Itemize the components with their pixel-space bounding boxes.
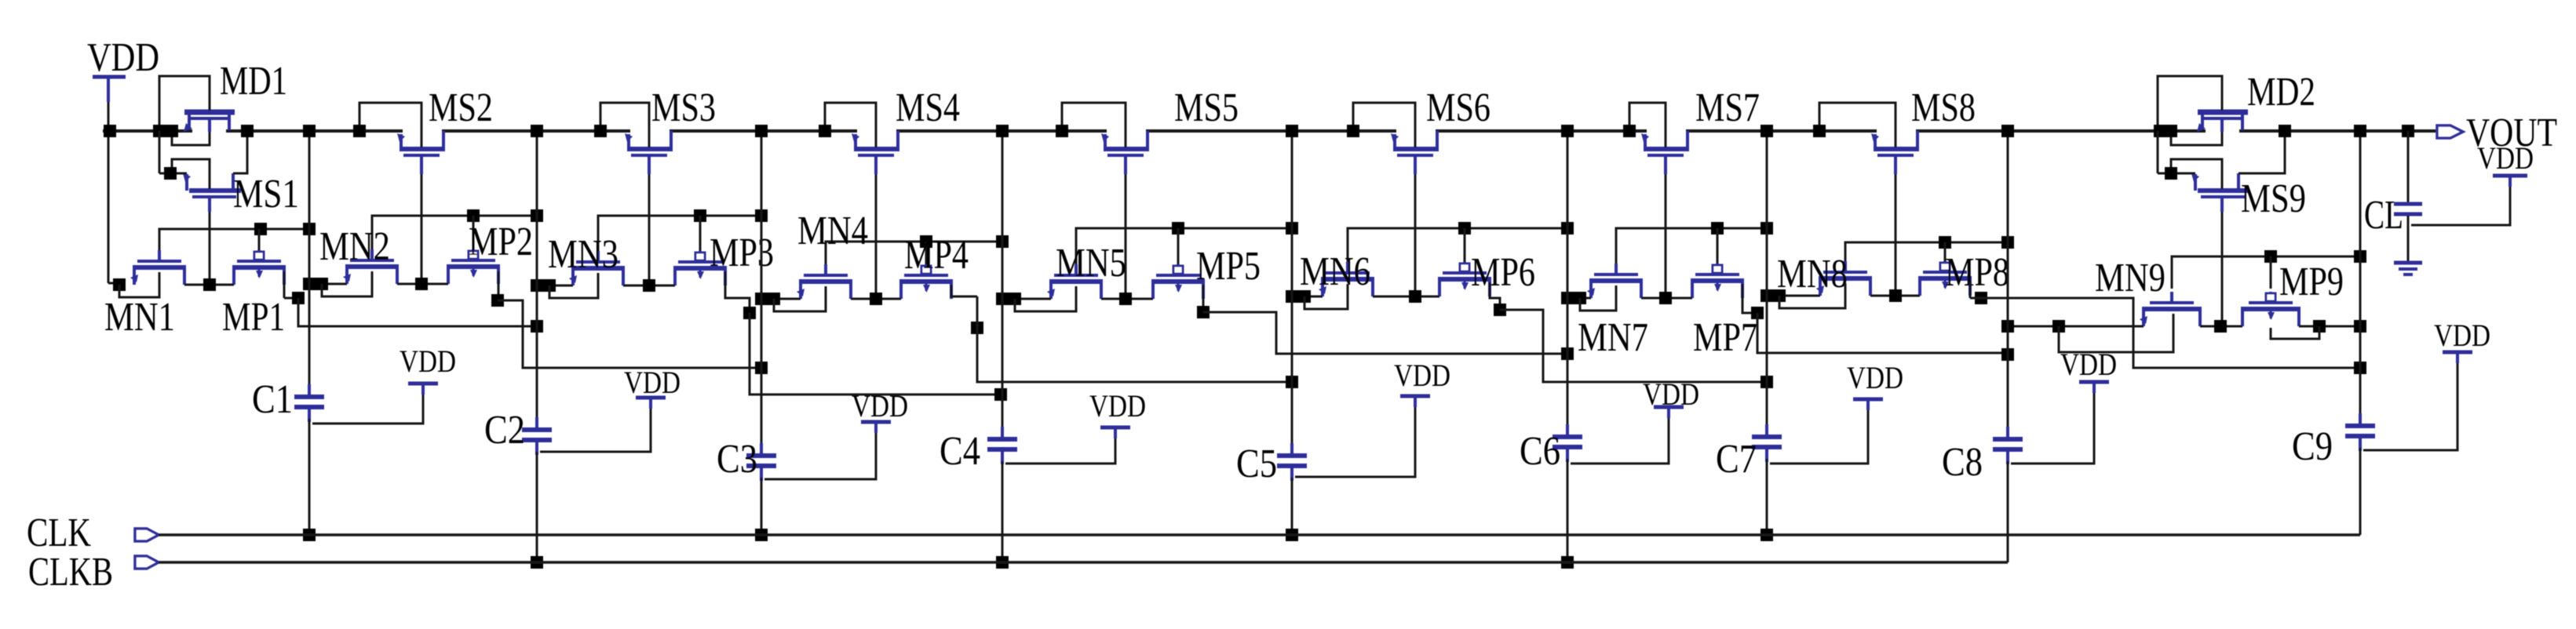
capacitor C9: [2345, 413, 2375, 451]
label VOUT: [2466, 111, 2557, 155]
wire C5 bottom: [1291, 478, 1293, 535]
junction (MS6 box/rail): [1347, 125, 1359, 137]
wire C6 bottom: [1567, 459, 1569, 562]
label MP2: [469, 220, 533, 264]
wire C4 bottom: [1002, 461, 1004, 562]
wire MN6 bulk loop: [1304, 284, 1348, 309]
label MN6: [1300, 249, 1370, 294]
wire MN2-MP2 mid: [397, 283, 448, 285]
wire MP6 gate stem: [1464, 228, 1466, 262]
transistor MN9: [2140, 292, 2202, 326]
junction (C1/clock rail): [303, 529, 316, 541]
label MD2: [2247, 70, 2315, 115]
transistor MN2: [343, 249, 399, 284]
label MP8: [1945, 250, 2009, 295]
wire node5 to MN6: [1292, 296, 1323, 298]
junction (C4/clock rail): [996, 556, 1009, 569]
transistor MP4: [899, 264, 953, 299]
wire MP4 gate stem: [925, 242, 928, 264]
svg-text:CLKB: CLKB: [28, 550, 113, 594]
wire MP7 drain stub: [1742, 284, 1757, 313]
svg-text:C2: C2: [484, 408, 525, 453]
wire C4 bulk tap: [1005, 427, 1115, 464]
wire MP9 gate stem: [2270, 256, 2272, 289]
transistor MP3: [673, 251, 727, 285]
junction (net5/node6): [1561, 347, 1574, 360]
label MS5: [1174, 85, 1239, 130]
wire MN9-MP9 mid: [2200, 325, 2242, 328]
wire stage2 gate row: [598, 216, 761, 251]
wire net6 (MP6 to node7): [1500, 310, 1767, 382]
svg-text:VDD: VDD: [87, 35, 159, 80]
wire C3 bulk tap: [764, 422, 876, 479]
wire MS1 drain riser: [233, 131, 247, 173]
svg-text:C8: C8: [1942, 440, 1983, 485]
transistor MS1: [183, 173, 241, 212]
wire MP9 bulk loop: [2271, 326, 2319, 339]
wire MS3 gate box: [600, 103, 649, 147]
svg-text:MP1: MP1: [222, 295, 285, 340]
junction (C5/clock rail): [1286, 529, 1298, 541]
junction (net4/node5): [1286, 376, 1298, 388]
wire stage0 gate row: [159, 229, 309, 250]
junction (node C5/rail): [1286, 125, 1298, 137]
power VDD (C1): [400, 344, 456, 394]
wire MP8 gate stem: [1944, 242, 1947, 261]
svg-text:MN8: MN8: [1777, 252, 1848, 296]
junction (node C7/rail): [1761, 125, 1773, 137]
wire C9 bottom: [2359, 448, 2362, 535]
wire CL tap to VDD: [2411, 179, 2510, 225]
wire net4 (MP4 to node5): [977, 296, 1292, 382]
wire MN7 bulk loop: [1580, 285, 1616, 311]
junction (MD2 box/rail): [2154, 125, 2166, 137]
capacitor C5: [1277, 443, 1307, 481]
wire MS6 gate box: [1353, 103, 1415, 147]
power VDD (C7): [1847, 360, 1903, 410]
junction (mid MS5 gate): [1119, 293, 1132, 305]
svg-text:VOUT: VOUT: [2466, 111, 2557, 155]
wire stage5 gate row: [1348, 228, 1567, 262]
wire MN9 bulk loop: [2059, 314, 2173, 352]
transistor MP9: [2241, 292, 2301, 326]
capacitor C7: [1752, 424, 1782, 462]
svg-text:MS5: MS5: [1174, 85, 1239, 130]
svg-text:VDD: VDD: [2434, 318, 2490, 353]
label MN9: [2095, 256, 2166, 300]
wire node vertical C2: [536, 131, 538, 428]
junction (MP1 gate on row): [254, 223, 267, 235]
label C5: [1236, 442, 1277, 486]
transistor MN5: [1047, 264, 1103, 299]
label MS6: [1426, 85, 1491, 130]
svg-text:VDD: VDD: [1847, 360, 1903, 395]
wire MS2 gate stem: [421, 174, 423, 284]
junction (MP3 gate on row): [694, 209, 706, 222]
label MN7: [1578, 315, 1648, 360]
transistor MN4: [797, 264, 852, 299]
junction (node1 gate row): [303, 223, 316, 235]
svg-text:MP8: MP8: [1945, 250, 2009, 295]
wire net8 (MP8 to node9): [1970, 298, 2360, 368]
label MS8: [1911, 85, 1976, 130]
wire MS9 source to MD2 box: [2158, 131, 2195, 173]
svg-text:VDD: VDD: [2060, 347, 2117, 382]
wire node8 to MN9: [2008, 325, 2144, 328]
wire MP4 drain stub: [951, 285, 977, 296]
svg-text:MP4: MP4: [904, 233, 969, 278]
label MP1: [222, 295, 285, 340]
junction (vout node/rail): [2354, 125, 2366, 137]
wire MN1-MP1 mid: [184, 284, 234, 286]
power VDD (top left): [87, 35, 159, 131]
wire MS5 gate box: [1062, 103, 1126, 147]
capacitor C1: [294, 384, 324, 422]
wire MS9 gate stem: [2221, 212, 2224, 326]
label C2: [484, 408, 525, 453]
wire MS7 gate box: [1629, 103, 1666, 147]
junction (MP7 gate on row): [1711, 222, 1724, 235]
junction (MS1 source wire): [164, 167, 177, 180]
svg-text:MN5: MN5: [1056, 241, 1126, 285]
svg-text:MP2: MP2: [469, 220, 533, 264]
junction (MP7 drain): [1751, 307, 1764, 319]
junction (node1 b): [316, 278, 328, 290]
svg-text:MS9: MS9: [2241, 176, 2306, 221]
wire net1 (MP1 to node2): [298, 298, 537, 326]
wire MS8 gate box: [1819, 103, 1896, 147]
wire MN5 bulk loop: [1015, 286, 1076, 311]
junction (node7 a): [1761, 289, 1773, 302]
wire MS6 gate stem: [1414, 174, 1417, 296]
junction (MP8 gate on row): [1939, 236, 1951, 249]
wire VDD top rail: [103, 129, 2437, 133]
junction (mid MS3 gate): [643, 279, 655, 292]
svg-text:MS7: MS7: [1695, 85, 1760, 130]
wire node6 to MN7: [1567, 297, 1591, 300]
junction (node9 gate row): [2354, 250, 2366, 263]
label MP9: [2279, 260, 2344, 304]
junction (MD1 gate/rail): [166, 125, 178, 137]
transistor MS9: [2191, 173, 2249, 212]
junction (MP1 drain): [292, 292, 305, 304]
wire MS1 source to MD1 box: [159, 131, 187, 173]
junction (MD1 box/rail): [153, 125, 166, 137]
junction (MS2 box/rail): [353, 125, 366, 137]
transistor MN1: [130, 250, 186, 285]
junction (net8/node9): [2354, 362, 2366, 374]
label C9: [2292, 424, 2333, 469]
svg-text:VDD: VDD: [624, 365, 680, 400]
junction (MP8 drain): [1975, 292, 1987, 304]
label MP7: [1693, 315, 1757, 360]
wire node vertical C4: [1002, 131, 1004, 438]
junction (net7/node8): [2001, 348, 2014, 361]
junction (node C4/rail): [996, 125, 1009, 137]
transistor MD2: [2197, 112, 2248, 132]
label C3: [717, 437, 757, 482]
wire C8 bulk tap: [2011, 382, 2094, 464]
wire node vertical C5: [1291, 131, 1293, 454]
junction (MP4 drain): [971, 322, 983, 334]
junction (MS5 box/rail): [1056, 125, 1068, 137]
wire MP3 drain stub: [725, 271, 750, 313]
junction (MS7 box/rail): [1623, 125, 1636, 137]
junction (MP9 drain sq): [2313, 320, 2326, 333]
label C8: [1942, 440, 1983, 485]
ground (CL): [2394, 263, 2422, 275]
svg-text:VDD: VDD: [400, 344, 456, 379]
wire CLKB rail: [159, 561, 2008, 564]
wire VDD stem to MN1 row: [108, 131, 119, 285]
junction (CL/rail): [2402, 125, 2414, 137]
junction (node4 a): [996, 293, 1009, 305]
junction (node5 b): [1298, 290, 1311, 303]
wire MS2 gate box: [359, 103, 421, 147]
junction (MS8 box/rail): [1813, 125, 1826, 137]
svg-text:MN2: MN2: [319, 224, 390, 269]
wire MD2 bulk box: [2158, 76, 2222, 131]
wire MP1 drain stub: [284, 271, 298, 298]
transistor MP8: [1918, 261, 1972, 296]
power VDD (C2): [624, 365, 680, 409]
label MN1: [104, 295, 175, 340]
wire C5 bulk tap: [1295, 396, 1415, 477]
wire net3 (MP3 to node4): [750, 313, 1001, 394]
svg-text:C4: C4: [940, 429, 980, 474]
junction (MP2 drain): [491, 294, 504, 307]
junction (MS3 box/rail): [594, 125, 607, 137]
junction (MP3 drain): [743, 307, 756, 319]
wire node2 to MN3: [537, 285, 573, 287]
label MS4: [896, 85, 960, 130]
power VDD (C6): [1643, 376, 1699, 418]
capacitor C3: [746, 443, 776, 481]
label MD1: [220, 59, 287, 104]
transistor MP5: [1151, 264, 1205, 299]
junction (node C8/rail): [2001, 125, 2014, 137]
transistor MP6: [1438, 262, 1491, 296]
capacitor C4: [987, 427, 1017, 464]
junction (node C9/rail): [2354, 125, 2366, 137]
wire MS8 gate stem: [1895, 174, 1897, 296]
label C4: [940, 429, 980, 474]
wire C3 bottom: [761, 478, 763, 535]
transistor MP2: [447, 249, 500, 284]
pin VOUT: [2437, 125, 2463, 138]
transistor MS7: [1641, 131, 1689, 174]
junction (MS9 drain/rail): [2279, 125, 2291, 137]
power VDD (C8): [2060, 347, 2117, 393]
junction (node3 a): [755, 293, 768, 305]
wire MP2 gate stem: [473, 216, 475, 249]
junction (MP9 gate on row): [2264, 250, 2277, 263]
label MN8: [1777, 252, 1848, 296]
wire node vertical C9: [2359, 131, 2362, 424]
wire node vertical C1: [308, 131, 311, 395]
wire C2 bulk tap: [540, 398, 651, 452]
power VDD (C9): [2434, 318, 2490, 363]
junction (node9 at row): [2354, 320, 2366, 333]
junction (MS4 box/rail): [819, 125, 831, 137]
wire node3 to MN4: [761, 298, 801, 300]
junction (node3 b): [768, 293, 780, 305]
junction (C3/clock rail): [755, 529, 768, 541]
wire MN4-MP4 mid: [851, 298, 901, 300]
junction (MP4 gate on row): [920, 235, 932, 248]
junction (node C6/rail): [1561, 125, 1574, 137]
svg-text:C1: C1: [252, 377, 293, 422]
transistor MS6: [1391, 131, 1439, 174]
wire net5 (MP5 to node6): [1203, 312, 1567, 354]
junction (MP6 gate on row): [1458, 222, 1471, 235]
wire stage4 gate row: [1076, 228, 1292, 264]
capacitor C6: [1553, 424, 1582, 462]
wire node vertical C6: [1567, 131, 1569, 435]
junction (node8 b): [2052, 320, 2065, 333]
transistor MN7: [1587, 264, 1643, 298]
junction (node2 a): [531, 279, 543, 292]
wire MS4 gate box: [825, 103, 876, 147]
wire MS1 gate stem: [209, 212, 211, 285]
svg-text:MS2: MS2: [429, 85, 493, 130]
label MN4: [797, 209, 868, 253]
wire MP6 drain stub: [1490, 282, 1500, 310]
svg-text:MN4: MN4: [797, 209, 868, 253]
junction (net6/node7): [1761, 376, 1773, 388]
label CL: [2364, 193, 2403, 238]
junction (node5 a): [1286, 290, 1298, 303]
svg-text:VDD: VDD: [852, 388, 908, 424]
junction (MP5 drain): [1197, 306, 1210, 318]
transistor MS4: [852, 131, 899, 174]
capacitor CL: [2394, 131, 2422, 261]
label MS2: [429, 85, 493, 130]
wire MP1 gate stem: [258, 229, 261, 250]
wire C2 bottom: [536, 452, 538, 562]
svg-text:MD2: MD2: [2247, 70, 2315, 115]
junction (mid MS1 gate): [203, 278, 216, 291]
svg-text:CLK: CLK: [27, 511, 91, 555]
junction (node C3/rail): [755, 125, 768, 137]
junction (mid MS8 gate): [1889, 289, 1902, 302]
wire C1 bottom: [308, 419, 311, 535]
junction (node3 gate row): [755, 209, 768, 222]
wire MP2 drain stub: [498, 271, 500, 300]
label MP3: [710, 231, 774, 275]
svg-text:MS4: MS4: [896, 85, 960, 130]
junction (node6 b): [1574, 292, 1586, 304]
svg-text:MS8: MS8: [1911, 85, 1976, 130]
label MP4: [904, 233, 969, 278]
junction (VDD/rail): [104, 125, 116, 137]
label MN5: [1056, 241, 1126, 285]
capacitor C8: [1993, 427, 2023, 464]
label C1: [252, 377, 293, 422]
label MS9: [2241, 176, 2306, 221]
junction (node6 gate row): [1561, 222, 1574, 235]
wire C9 bulk tap: [2363, 352, 2457, 450]
label MN3: [548, 232, 618, 277]
junction (MP5 gate on row): [1172, 222, 1184, 235]
wire MP7 gate stem: [1717, 228, 1719, 264]
junction (node8 gate row): [2001, 236, 2014, 249]
svg-text:VDD: VDD: [1394, 358, 1450, 393]
svg-text:MS6: MS6: [1426, 85, 1491, 130]
junction (node7 b): [1773, 289, 1786, 302]
label MS7: [1695, 85, 1760, 130]
wire stage1 gate row: [372, 216, 537, 249]
power VDD (C3): [852, 388, 908, 433]
svg-text:C5: C5: [1236, 442, 1277, 486]
wire MN8-MP8 mid: [1870, 295, 1920, 297]
wire MN4 bulk loop: [774, 286, 826, 311]
transistor MN8: [1816, 261, 1872, 296]
junction (MP2 gate on row): [467, 209, 480, 222]
power VDD (C4): [1089, 388, 1146, 438]
transistor MS3: [625, 131, 673, 174]
label CLK: [27, 511, 91, 555]
svg-text:MP6: MP6: [1471, 250, 1535, 295]
junction (node5 gate row): [1286, 222, 1298, 235]
wire MN3-MP3 mid: [623, 285, 675, 287]
junction (mid MS4 gate): [870, 293, 882, 305]
svg-text:MP7: MP7: [1693, 315, 1757, 360]
label C6: [1520, 429, 1560, 474]
wire MN1 bulk loop: [119, 272, 159, 297]
label CLKB: [28, 550, 113, 594]
wire MS1 bulk box: [172, 159, 210, 189]
svg-text:MN6: MN6: [1300, 249, 1370, 294]
junction (C2/clock rail): [531, 556, 543, 569]
wire MS3 gate stem: [648, 174, 651, 285]
junction (C6/clock rail): [1561, 556, 1574, 569]
wire C1 bulk tap: [312, 384, 423, 424]
svg-text:MN3: MN3: [548, 232, 618, 277]
transistor MD1: [184, 112, 235, 132]
pin CLKB: [135, 556, 159, 569]
junction (MD2 gate/rail): [2165, 125, 2177, 137]
junction (mid MS6 gate): [1409, 290, 1421, 303]
junction (mid MS7 gate): [1659, 292, 1672, 304]
transistor MP7: [1691, 264, 1744, 298]
wire stage3 gate row: [826, 242, 1002, 264]
pin CLK: [135, 529, 159, 541]
wire MD1 gate loop: [172, 131, 210, 145]
wire node4 to MN5: [1002, 298, 1051, 300]
junction (node1 a): [303, 278, 316, 290]
transistor MS2: [397, 131, 445, 174]
junction (MS9 source wire): [2165, 167, 2177, 180]
junction (node7 gate row): [1761, 222, 1773, 235]
wire stage7 gate row: [1845, 242, 2008, 261]
junction (net3/node4): [994, 388, 1007, 401]
svg-text:CL: CL: [2364, 193, 2403, 238]
label MP6: [1471, 250, 1535, 295]
svg-text:VDD: VDD: [1089, 388, 1146, 424]
power VDD (C5): [1394, 358, 1450, 407]
wire node vertical C7: [1766, 131, 1768, 435]
junction (node2 gate row): [531, 209, 543, 222]
junction (node4 gate row): [996, 235, 1009, 248]
wire MP8 drain stub: [1969, 282, 1972, 298]
wire MD1 bulk box: [159, 76, 210, 131]
wire MS9 drain riser: [2238, 131, 2285, 173]
junction (node C2/rail): [531, 125, 543, 137]
transistor MP1: [232, 250, 286, 285]
junction (node6 a): [1561, 292, 1574, 304]
transistor MN6: [1319, 262, 1374, 296]
